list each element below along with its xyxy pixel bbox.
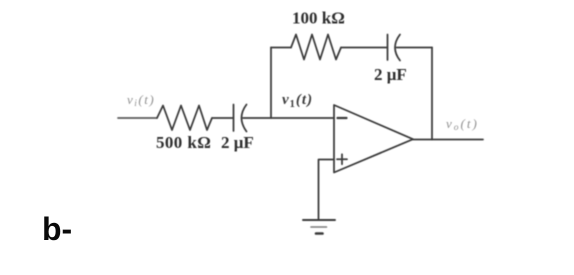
ground bottom bar xyxy=(316,232,323,235)
capacitor C2 2uF curved plate xyxy=(395,35,400,61)
capacitor C2 2uF left plate xyxy=(387,35,389,61)
wire feedback right vertical down to output node xyxy=(431,48,433,140)
svg-text:vo(t): vo(t) xyxy=(446,116,479,133)
svg-text:2 μF: 2 μF xyxy=(221,133,254,152)
wire node v1 up to feedback branch xyxy=(270,48,272,119)
op-amp U1 triangle xyxy=(334,105,413,173)
wire non-inverting input to ground xyxy=(319,160,335,220)
wire C1 to op-amp inverting input, through node v1 xyxy=(243,117,334,119)
wire feedback top left xyxy=(271,47,291,49)
svg-text:b-: b- xyxy=(42,211,72,247)
wire input left segment xyxy=(118,117,157,119)
wire output xyxy=(413,139,483,141)
svg-text:100 kΩ: 100 kΩ xyxy=(292,9,345,28)
ground middle bar xyxy=(311,226,327,228)
wire R1 to C1 xyxy=(212,117,233,119)
capacitor C1 2uF curved plate xyxy=(242,105,247,132)
op-amp U1 non-inverting input plus sign xyxy=(337,154,347,164)
resistor R1 500 kOhm xyxy=(157,106,212,131)
capacitor C1 2uF left plate xyxy=(233,105,235,132)
op-amp U1 inverting input minus sign xyxy=(338,117,347,119)
svg-text:2 μF: 2 μF xyxy=(374,65,407,84)
resistor R2 100 kOhm xyxy=(291,35,341,60)
svg-text:500 kΩ: 500 kΩ xyxy=(156,133,211,152)
wire R2 to C2 xyxy=(341,47,387,49)
svg-text:v1(t): v1(t) xyxy=(282,92,313,110)
svg-text:vi(t): vi(t) xyxy=(127,92,155,109)
ground top bar xyxy=(303,219,335,221)
wire C2 to right feedback corner xyxy=(397,47,433,49)
